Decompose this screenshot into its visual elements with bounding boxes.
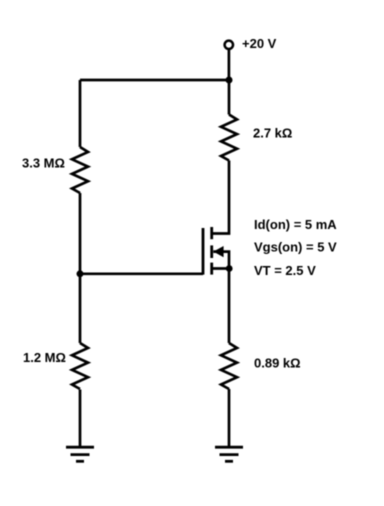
channel bar body — [210, 245, 213, 258]
ground left — [66, 447, 94, 461]
transistor Q1 MOSFET — [203, 227, 212, 275]
wire left middle vertical — [79, 193, 82, 343]
resistor R3 2.7 kΩ — [221, 115, 237, 161]
wire top horizontal — [80, 79, 229, 82]
wire terminal to top node — [228, 49, 231, 80]
wire drain vertical — [212, 161, 229, 234]
svg-text:VT = 2.5 V: VT = 2.5 V — [254, 263, 316, 278]
gate bar — [202, 228, 205, 275]
wire gate lead — [80, 272, 203, 275]
wire right top vertical — [228, 80, 231, 115]
svg-text:+20 V: +20 V — [242, 36, 277, 51]
resistor R4 0.89 kΩ — [221, 343, 237, 389]
svg-text:0.89 kΩ: 0.89 kΩ — [254, 356, 301, 371]
channel bar drain — [210, 227, 213, 239]
wire right bottom vertical — [228, 389, 231, 447]
svg-text:2.7 kΩ: 2.7 kΩ — [253, 126, 292, 141]
svg-text:Vgs(on) = 5 V: Vgs(on) = 5 V — [254, 240, 337, 255]
node source junction — [226, 265, 233, 272]
svg-text:1.2 MΩ: 1.2 MΩ — [23, 350, 66, 365]
node gate junction — [77, 270, 84, 277]
wire source lead — [212, 267, 229, 270]
body arrow — [213, 246, 223, 257]
wire body lead — [213, 252, 229, 269]
ground right — [215, 447, 243, 461]
svg-text:Id(on) = 5 mA: Id(on) = 5 mA — [254, 217, 337, 232]
node top junction — [226, 77, 233, 84]
resistor R1 3.3 MΩ — [72, 147, 88, 193]
svg-text:3.3 MΩ: 3.3 MΩ — [22, 156, 65, 171]
wire left top vertical — [79, 80, 82, 147]
wire left bottom vertical — [79, 390, 82, 448]
supply terminal +20 V — [225, 41, 233, 49]
channel bar source — [210, 263, 213, 275]
resistor R2 1.2 MΩ — [72, 343, 88, 389]
wire right middle vertical — [228, 269, 231, 344]
